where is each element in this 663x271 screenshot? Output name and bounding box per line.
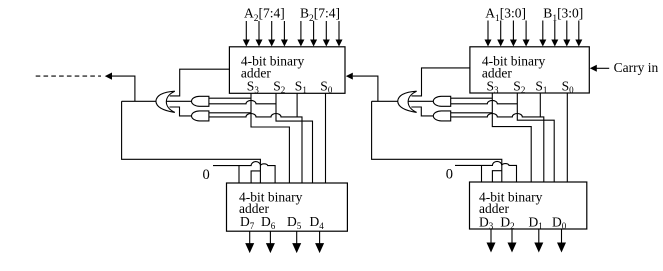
wire S1 left to G3 lower input (hops over S3,S2) then down to U3	[209, 114, 302, 184]
svg-text:D4: D4	[310, 214, 325, 231]
wire S1 left vertical	[296, 93, 298, 117]
wire S0 left vertical to U3	[325, 93, 327, 183]
svg-text:S1: S1	[535, 78, 547, 95]
wire carry-in into U2	[590, 65, 609, 72]
wire S2 left vertical with jog to U3	[276, 93, 313, 183]
wire G6 output to G4	[411, 107, 433, 116]
4-bit binary adder U4 (bottom right)	[470, 182, 587, 231]
wire S3 left to G2 upper input	[209, 97, 251, 99]
or-gate G1 (left)	[156, 91, 175, 112]
and-gate G3 (left, S3·S1)	[192, 111, 209, 121]
and-gate G6 (right, S3·S1)	[433, 111, 450, 121]
carry-out dashed arrow (left)	[36, 73, 135, 102]
svg-text:S2: S2	[513, 78, 525, 95]
wire G1 output to carry-out	[122, 100, 156, 102]
4-bit binary adder U2 (top right)	[470, 47, 589, 95]
svg-text:A2[7:4]: A2[7:4]	[244, 6, 285, 24]
or-gate G4 (right)	[398, 91, 417, 112]
wire G3 output to G1	[170, 107, 192, 116]
wire G1 output down to U3 correction inputs	[122, 101, 261, 183]
and-gate G5 (right, S3·S2)	[433, 96, 450, 106]
svg-text:S3: S3	[247, 78, 260, 95]
svg-text:D5: D5	[287, 214, 302, 231]
svg-text:D2: D2	[500, 214, 514, 231]
svg-text:0: 0	[446, 167, 453, 183]
wire S2 right vertical with jog to U4	[517, 93, 554, 182]
svg-text:0: 0	[203, 167, 210, 183]
input arrows B1	[539, 21, 582, 47]
svg-text:D6: D6	[261, 214, 276, 231]
wire S2 left to G2 lower input (hop over S3)	[209, 100, 276, 103]
wire G4 output with carry branch to U1	[346, 73, 398, 102]
label Carry in	[614, 60, 659, 75]
wire S3 right to G5 upper input	[451, 97, 493, 99]
bus label A1[3:0]	[485, 6, 526, 24]
output arrows D7 D6 D5 D4	[245, 231, 324, 253]
svg-text:D3: D3	[479, 214, 494, 231]
svg-text:S1: S1	[295, 78, 307, 95]
bus label B2[7:4]	[300, 6, 340, 24]
wire S3 left vertical with jog to U3	[251, 93, 289, 183]
svg-text:D1: D1	[529, 214, 543, 231]
4-bit binary adder U3 (bottom left)	[227, 183, 348, 231]
svg-text:B2[7:4]: B2[7:4]	[300, 6, 340, 24]
wire S3 left to G3 upper input	[209, 112, 251, 114]
svg-text:B1[3:0]: B1[3:0]	[543, 6, 583, 24]
wire G5 output to G4	[408, 100, 433, 102]
svg-text:D7: D7	[240, 214, 255, 231]
wire G4 output down to U4 correction inputs	[372, 101, 502, 182]
svg-text:S0: S0	[320, 78, 333, 95]
input arrows A1	[485, 21, 530, 47]
svg-text:D0: D0	[552, 214, 567, 231]
bus label B1[3:0]	[543, 6, 583, 24]
wire S3 right to G6 upper input	[451, 112, 493, 114]
svg-text:A1[3:0]: A1[3:0]	[485, 6, 526, 24]
wire U1 carry-out to OR gate G1	[170, 69, 230, 96]
wire constant 0 (left) to U3 inputs with hops	[213, 162, 275, 183]
label 0 (right)	[446, 167, 453, 183]
output arrows D3 D2 D1 D0	[487, 229, 567, 253]
wire S3 right vertical with jog to U4	[492, 93, 531, 182]
wire S2 right to G5 lower input (hop over S3)	[451, 100, 518, 103]
wire constant 0 (right) to U4 inputs with hops	[455, 161, 517, 182]
4-bit binary adder U1 (top left)	[229, 47, 345, 95]
svg-text:S0: S0	[562, 78, 575, 95]
wire S1 right to G6 lower input (hops over S3,S2) then down to U4	[451, 114, 544, 183]
and-gate G2 (left, S3·S2)	[192, 96, 209, 106]
wire U2 carry-out to OR gate G4	[412, 68, 470, 96]
label 0 (left)	[203, 167, 210, 183]
svg-text:S2: S2	[273, 78, 285, 95]
svg-text:adder: adder	[241, 65, 271, 80]
svg-text:S3: S3	[487, 78, 500, 95]
input arrows B2	[297, 21, 342, 47]
wire G2 output to G1	[167, 100, 192, 102]
wire S1 right vertical	[539, 93, 541, 117]
bus label A2[7:4]	[244, 6, 285, 24]
svg-text:Carry in: Carry in	[614, 60, 659, 75]
input arrows A2	[243, 21, 288, 47]
wire S0 right vertical to U4	[566, 93, 568, 182]
